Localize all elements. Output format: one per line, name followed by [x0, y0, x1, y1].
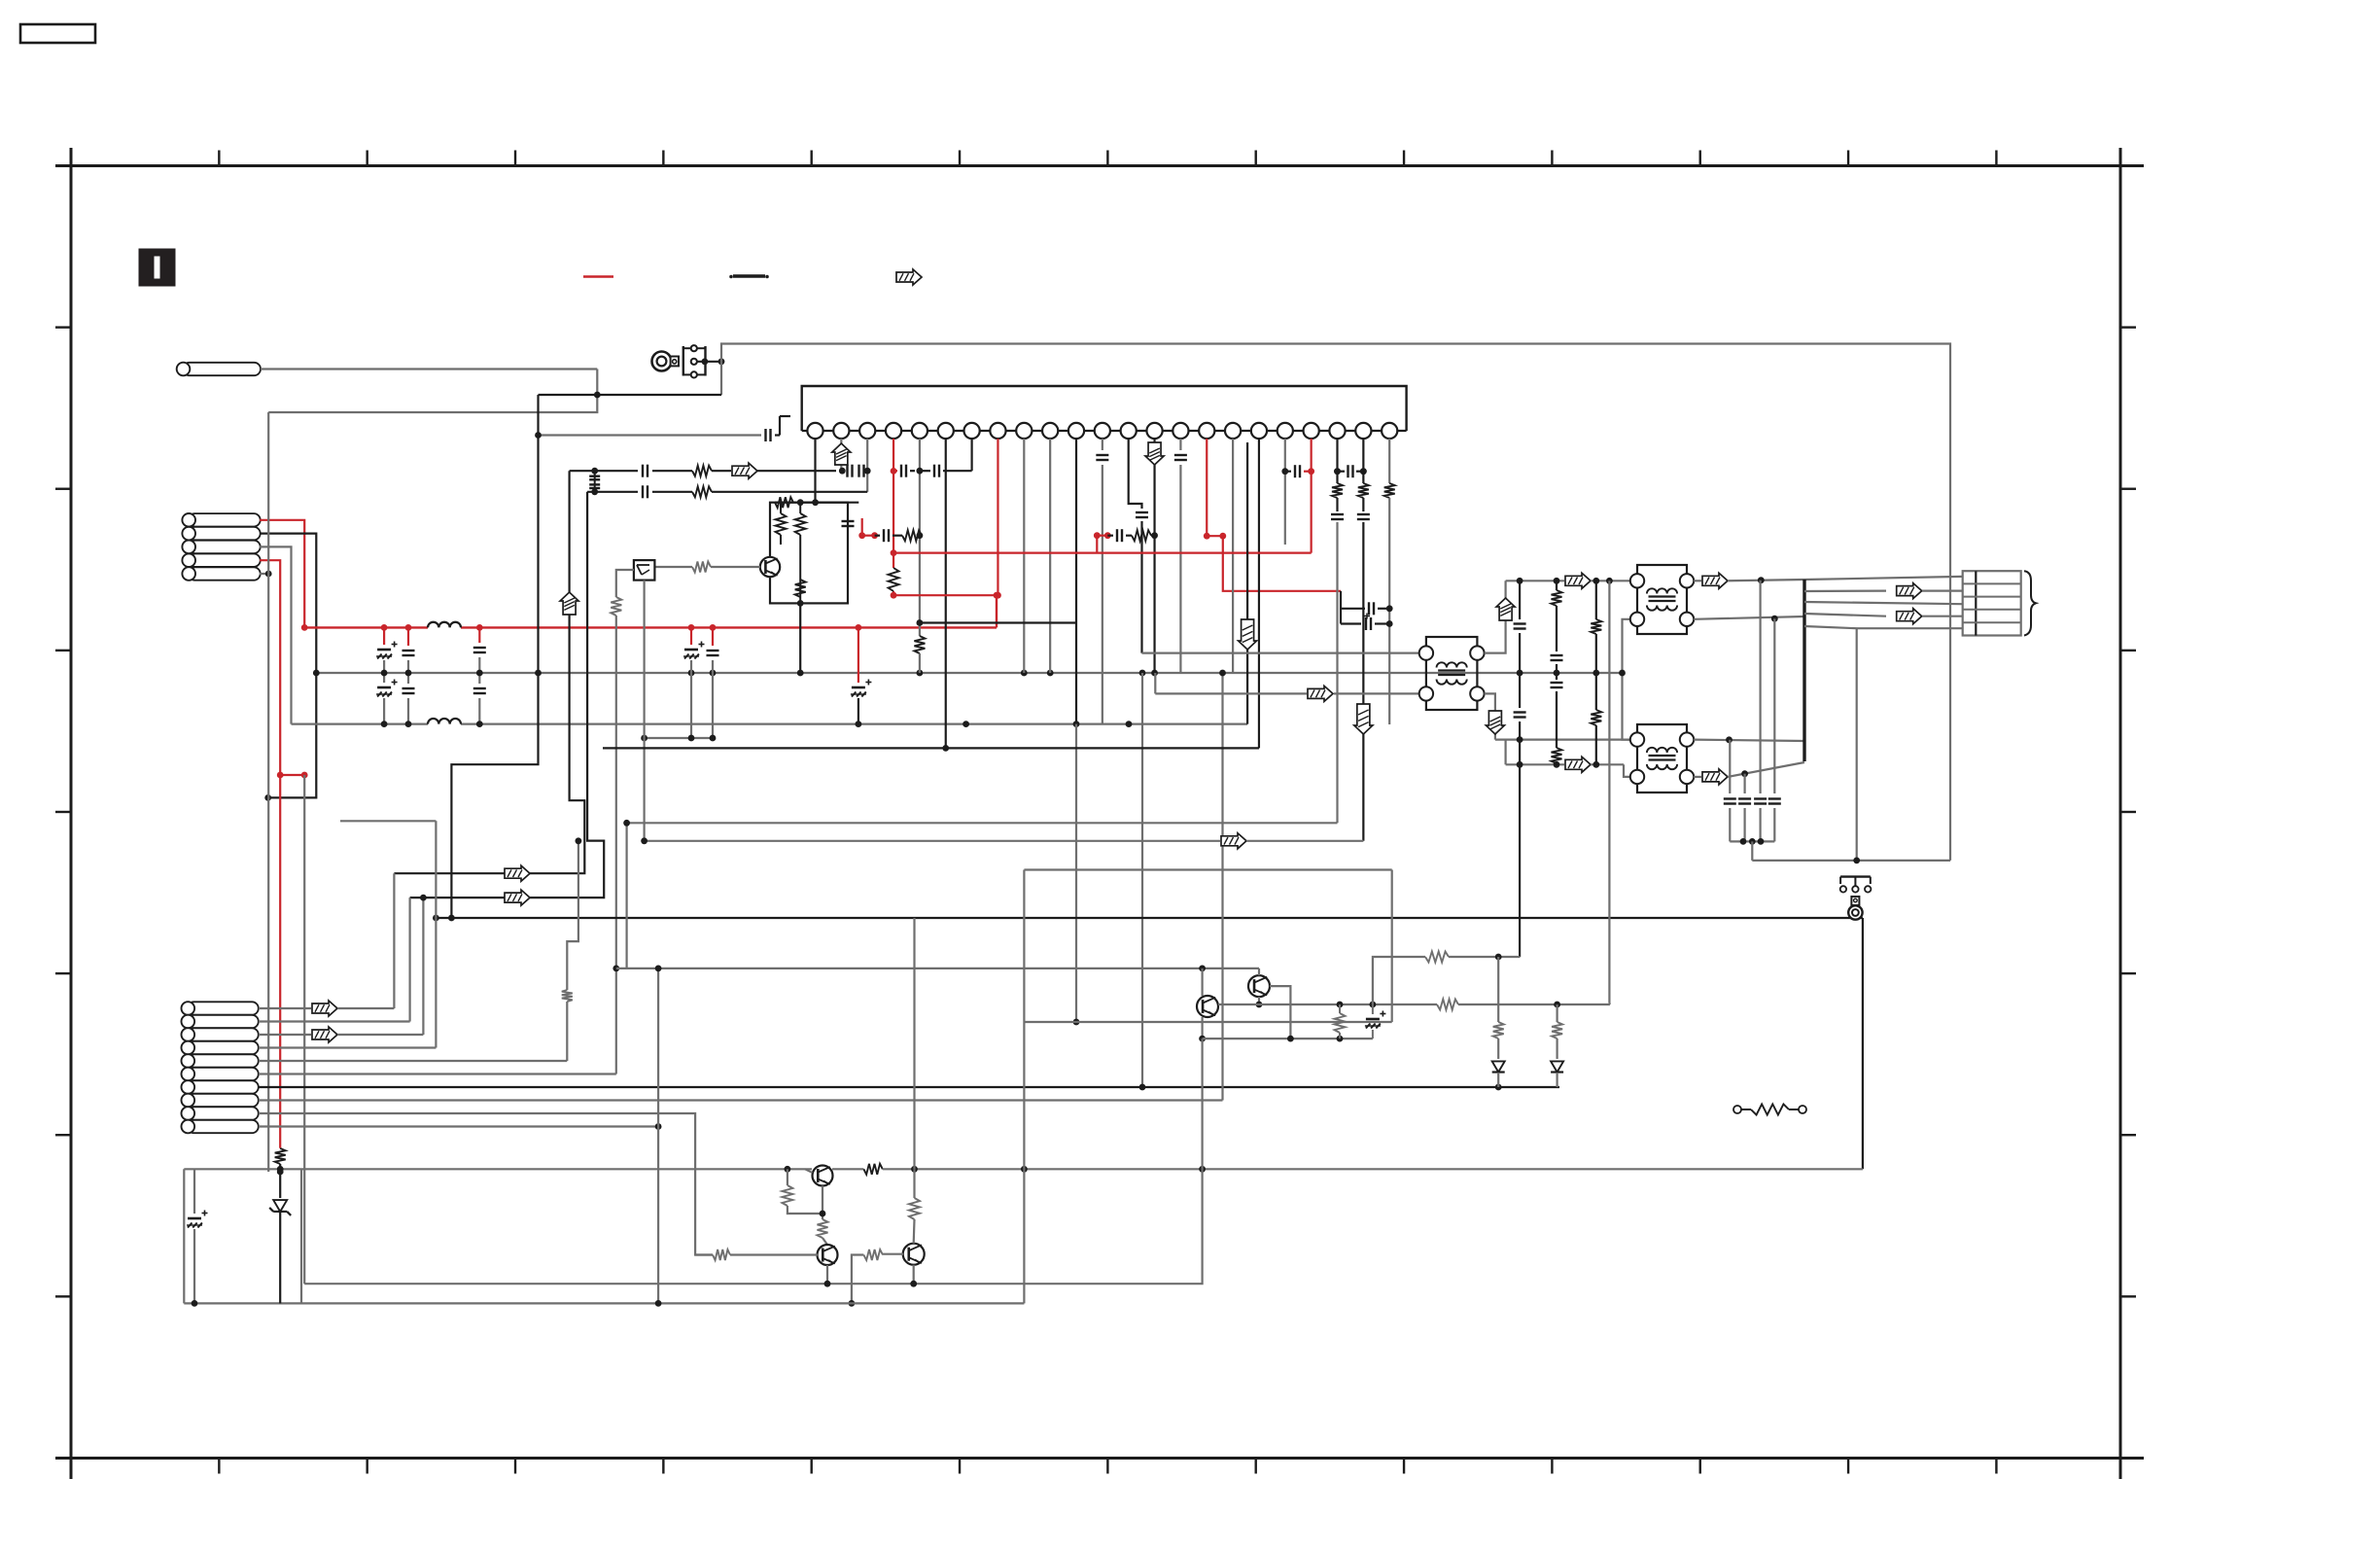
capacitor C17 electrolytic on red drop — [857, 627, 859, 683]
wire pin9 drop — [1023, 439, 1025, 673]
wire y597 to T2 — [1506, 580, 1564, 581]
node — [1495, 1084, 1502, 1091]
Q5 base resistor R24 — [883, 1253, 903, 1255]
brace — [2024, 571, 2036, 635]
wire — [268, 370, 597, 413]
wire to pin6 of CN3 — [615, 616, 617, 1074]
node — [1337, 1002, 1344, 1008]
node — [612, 966, 619, 972]
node — [1758, 577, 1765, 583]
wire pin15 drop — [1179, 439, 1181, 450]
wire Q1 coll — [1201, 968, 1203, 996]
resistor col x1641 — [1595, 581, 1597, 619]
riser x1257 — [1221, 673, 1223, 1101]
riser x1188 — [1154, 673, 1156, 693]
ground wire y884 — [1752, 860, 1950, 862]
red cluster y550 left — [862, 535, 875, 537]
connector P1 single pin — [183, 363, 261, 375]
node — [535, 432, 542, 439]
section label I (black square) — [139, 249, 175, 286]
node — [849, 1300, 856, 1307]
wire T1 BR jog down — [1485, 693, 1495, 739]
transistor Q5 — [903, 1244, 925, 1265]
node — [1495, 954, 1502, 961]
wire pin13 drop — [1129, 439, 1142, 509]
node — [655, 966, 662, 972]
wire Q1 emit — [1201, 1017, 1203, 1039]
wire T2 BR — [1694, 616, 1804, 619]
wire — [261, 368, 597, 370]
battery box outline — [183, 1169, 185, 1303]
wire box drop — [799, 603, 801, 673]
resistor R11 — [611, 597, 621, 616]
wire pin5 drop — [919, 439, 921, 636]
capacitor C13 — [478, 627, 480, 643]
node — [655, 1123, 662, 1130]
caps right of pin4 — [893, 470, 897, 472]
wire y1051 — [1024, 1021, 1391, 1023]
wire to top bus — [721, 344, 1950, 861]
Q5 emit — [913, 1265, 915, 1285]
transistor Q2 — [1248, 975, 1270, 997]
riser pin3 — [422, 898, 424, 1035]
transistor Q6 — [760, 557, 780, 577]
capacitor C11 electrolytic — [383, 627, 385, 645]
wire pin1 net down — [303, 775, 305, 1284]
node — [1517, 761, 1523, 768]
capacitor C40 electrolytic — [193, 1169, 195, 1214]
red bus VCC y=645 — [304, 626, 428, 628]
node — [1517, 578, 1523, 584]
capacitor C2 at IC left — [539, 434, 762, 436]
transistor Q3 — [813, 1166, 833, 1186]
node — [641, 837, 647, 844]
legend black wire sample — [733, 274, 765, 277]
opto/regulator U2 — [634, 560, 655, 581]
red cluster y550 mid — [1097, 535, 1107, 537]
wire pin8 long — [259, 1099, 1223, 1101]
node — [995, 592, 1001, 599]
node — [277, 1169, 284, 1176]
riser x1053 — [1023, 870, 1025, 1304]
wire y=516.7 — [775, 502, 858, 504]
border tick marks — [218, 151, 220, 166]
riser x644 — [625, 823, 627, 968]
wire y406 — [539, 394, 722, 396]
wire Q2 right — [1270, 986, 1290, 1039]
black loop y944 — [436, 917, 1863, 919]
transformer T3 — [1637, 724, 1687, 792]
node — [277, 1166, 284, 1173]
node — [1619, 670, 1626, 677]
capacitor C20 — [847, 503, 849, 516]
wire pin5 — [259, 1060, 567, 1062]
gray mid bus y=692 — [316, 672, 1622, 674]
node — [702, 358, 709, 365]
node — [1219, 670, 1226, 677]
wire pin6 — [259, 1073, 616, 1074]
wire opto bottom — [643, 581, 645, 841]
transformer T1 — [1426, 637, 1478, 710]
caps C18/C19 under bus — [690, 627, 692, 645]
red drop x1258 — [1223, 536, 1341, 591]
wire pin4 red drop — [892, 439, 894, 568]
wire T3 TR — [1694, 740, 1804, 741]
riser pin4 — [435, 821, 437, 1047]
arrow y923 — [505, 890, 530, 905]
corner x1563 — [1519, 956, 1521, 958]
box outline — [770, 503, 848, 604]
wire pin16 red drop — [1206, 439, 1207, 536]
wire pin6 drop — [945, 439, 947, 748]
cap row y484 chain — [570, 470, 638, 472]
IC pins 1-23 — [807, 423, 822, 439]
wire opto left — [616, 570, 634, 597]
wire pin14 drop + arrow — [1153, 439, 1155, 673]
caps pin21-22 — [1334, 468, 1341, 475]
Q4 emit — [826, 1265, 828, 1284]
node — [264, 794, 271, 801]
wire x553 to loop — [451, 395, 538, 918]
wire x677 — [657, 968, 659, 1304]
wire pin21 drop — [1336, 439, 1338, 483]
node — [313, 670, 320, 677]
red jog — [280, 774, 304, 776]
legend hatched arrow — [896, 269, 922, 285]
long wire x1655 — [1608, 581, 1610, 1003]
node — [1741, 770, 1748, 777]
resistor R8 — [795, 513, 806, 535]
Q3 emit chain — [822, 1186, 823, 1220]
capacitor C16 — [478, 673, 480, 684]
gray line y1202 long — [184, 1168, 812, 1170]
arrow up x585 — [560, 592, 578, 615]
ground lug GND1 — [1840, 875, 1871, 877]
riser pin1 — [393, 873, 395, 1008]
wire pin1 red — [260, 520, 304, 628]
ring terminal E1 — [652, 352, 672, 371]
resistor R21 — [1339, 1004, 1341, 1013]
wire pin7 long — [259, 1086, 1559, 1088]
gray y864 to pin22 — [645, 840, 1220, 842]
T2 BL link down — [1623, 619, 1630, 740]
wire y786 to T3 BL — [1506, 763, 1564, 765]
node — [1199, 966, 1206, 972]
connector CN2 output — [1963, 571, 2021, 635]
legend red wire sample — [583, 275, 613, 277]
wire pin4 red — [260, 560, 280, 775]
gray low bus y=744.6 — [292, 722, 429, 724]
case ground L-symbol — [779, 416, 781, 436]
transistor Q4 — [818, 1245, 838, 1265]
red seg y612 — [893, 594, 997, 596]
riser pin5 — [566, 1002, 568, 1061]
resistor R9 — [795, 580, 806, 597]
gray y759 link — [645, 737, 713, 739]
wire x1107 down — [1075, 724, 1077, 1022]
red node pin4 row — [891, 468, 897, 475]
resistor R22 — [787, 1169, 788, 1185]
transformer T2 — [1637, 565, 1687, 634]
wire pin3 — [259, 1034, 311, 1036]
filter column x1563 — [1519, 581, 1521, 619]
wire pin1 drop — [814, 439, 816, 503]
connector CN3 10-pin — [188, 1002, 259, 1014]
cap row y505 chain — [587, 491, 638, 493]
node — [1386, 605, 1393, 612]
resistor R25 on red column — [275, 1148, 286, 1164]
wire y760 to T3 — [1495, 738, 1630, 740]
wire y984 row — [1373, 957, 1425, 1004]
wire pin10 — [259, 1125, 658, 1127]
node — [265, 571, 272, 578]
wire pin12 drop — [1102, 439, 1103, 450]
wire y996 — [616, 968, 1259, 969]
inductor L1 — [428, 622, 461, 628]
wire pin3 — [260, 546, 292, 723]
arrow up x1548 — [1496, 598, 1515, 620]
wire x1431 — [1391, 870, 1393, 1023]
node — [301, 624, 308, 631]
red drop to zener — [279, 775, 281, 1148]
wire y894 — [1024, 868, 1391, 870]
wire pin20 red drop — [1311, 439, 1312, 553]
jumper R30 with terminals — [1733, 1106, 1741, 1113]
inductor L2 — [428, 719, 461, 724]
wire T2 TR to connector — [1694, 580, 1701, 581]
filter column x1601 — [1556, 581, 1557, 590]
wire pin5 gnd — [260, 573, 268, 575]
capacitor C15 — [407, 673, 409, 684]
wire pin10 drop — [1049, 439, 1051, 673]
node — [1287, 1036, 1294, 1042]
wire T1 top feed — [1142, 651, 1419, 653]
riser pin17b with down arrow — [1246, 442, 1248, 724]
wire x1548 lower — [1504, 740, 1506, 765]
wire pin23 drop — [1388, 439, 1390, 483]
red bus corner up — [996, 595, 997, 627]
node — [655, 1300, 662, 1307]
resistor+diode col x1541 — [1497, 957, 1499, 1022]
page border frame — [55, 164, 2144, 167]
caps bank C30-33 — [1729, 740, 1731, 793]
black seg y640 — [920, 621, 1076, 623]
harness bundle bus — [1802, 580, 1805, 761]
wire pin22 drop — [1362, 439, 1364, 483]
series caps between rows — [594, 471, 596, 492]
resistor R20 — [863, 1164, 882, 1175]
cap pair near pin23 — [1340, 591, 1342, 624]
cap chain near pin18-20 red — [1281, 468, 1288, 475]
black y769 pin18 line — [603, 747, 1259, 749]
wire pin17 drop — [1232, 439, 1234, 673]
wire Q2 base down — [1258, 997, 1260, 1004]
resistor+diode col x1601 — [1556, 1004, 1557, 1022]
Q4 base resistor R23 — [730, 1253, 818, 1255]
base entry — [805, 1169, 813, 1173]
arrow y898 — [505, 865, 530, 881]
node — [797, 600, 804, 607]
wire gnd drop — [267, 412, 269, 1172]
wire pin9 — [259, 1113, 713, 1255]
wire pin2 drop — [840, 439, 842, 471]
wire Q2 top — [1258, 968, 1260, 975]
wire x1175 down — [1141, 673, 1143, 1087]
connector CN1 5-pin — [189, 513, 261, 526]
wire pin7 drop — [970, 439, 972, 471]
node — [594, 392, 601, 399]
node — [1771, 616, 1778, 622]
node — [381, 721, 388, 727]
transistor Q1 — [1197, 996, 1218, 1017]
wire pin11 drop — [1075, 439, 1077, 724]
fan lines to connector — [1804, 589, 1886, 592]
capacitor C21 electrolytic — [1372, 1004, 1374, 1014]
wire T3 BR — [1694, 776, 1701, 778]
node — [623, 820, 630, 827]
wire T1 TR up — [1485, 581, 1506, 652]
wire x604 stair — [410, 492, 605, 898]
red seg y568 — [893, 551, 1312, 553]
wire pin19 drop — [1284, 439, 1286, 545]
node — [277, 772, 284, 779]
node — [192, 1300, 198, 1307]
arrow down on pin22 — [1354, 704, 1373, 734]
wire y1033 — [1218, 1003, 1437, 1005]
capacitor C12 — [407, 627, 409, 646]
wire y1068 — [1203, 1038, 1373, 1039]
capacitor C14 electrolytic — [383, 673, 385, 683]
node — [1151, 670, 1158, 677]
node — [942, 745, 949, 752]
title box top-left — [20, 24, 95, 43]
wire pin2 — [259, 1020, 410, 1022]
base resistor R10 — [711, 566, 760, 568]
resistor R7 — [776, 513, 787, 535]
node — [576, 837, 582, 844]
Q5 collector chain — [913, 918, 915, 1169]
zener D3 — [273, 1200, 287, 1212]
wire T1 bottom feed — [1155, 692, 1307, 694]
resistor R4 on red — [889, 568, 899, 591]
arrow down x1537 — [1486, 711, 1504, 734]
cap bank rail — [1730, 840, 1774, 842]
gray y846 to pin21 — [627, 822, 1338, 824]
connector P2 3-pin — [682, 346, 684, 376]
wire pin8 red drop — [997, 439, 997, 595]
node — [1726, 736, 1732, 743]
corner x1655 — [1608, 1003, 1611, 1005]
wire x1909 down — [1856, 628, 1858, 861]
wire pin1 — [259, 1007, 311, 1009]
wire pin18 drop — [1258, 439, 1260, 748]
riser pin2 — [409, 898, 411, 1021]
bottom rail y1340 — [184, 1302, 1024, 1304]
stub y844 — [340, 820, 436, 822]
loop right side — [1862, 918, 1864, 1169]
red seg y551 — [1207, 535, 1223, 537]
wire pin2 — [260, 534, 316, 798]
wire x585 stair — [394, 471, 584, 873]
node — [1517, 736, 1523, 743]
wire pin4 — [259, 1046, 436, 1048]
IC U1 body — [802, 386, 1407, 431]
Q1 emitter long drop — [304, 1039, 1202, 1284]
node — [448, 915, 455, 922]
wire pin3 drop — [866, 439, 868, 492]
node — [1853, 858, 1860, 864]
arrow up pin2 — [832, 443, 851, 465]
